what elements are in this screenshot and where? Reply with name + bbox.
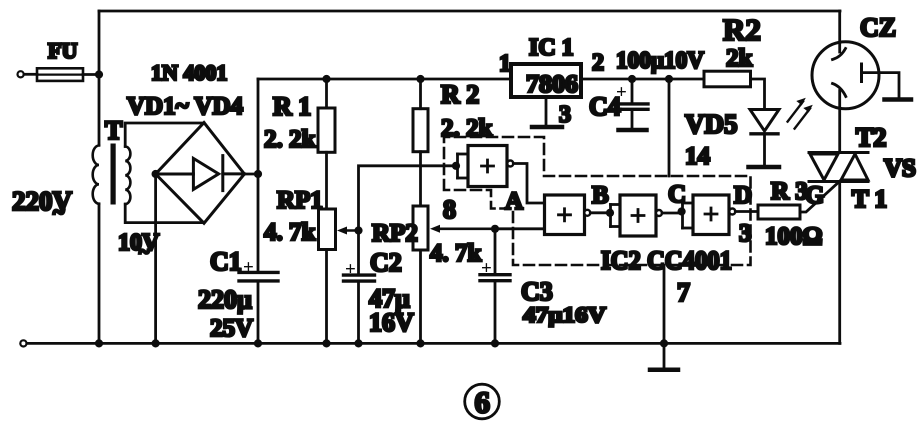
dashed IC2 boundary xyxy=(444,137,751,265)
svg-text:~: ~ xyxy=(53,199,65,224)
wire pin 14 drop xyxy=(668,79,671,176)
wire C2 to bus xyxy=(357,281,360,343)
wire positive top rail xyxy=(258,78,511,81)
svg-text:2k: 2k xyxy=(726,45,753,72)
voltage regulator IC1 7806 xyxy=(499,35,604,128)
bridge rectifier VD1-VD4 xyxy=(156,123,245,224)
node gate3 input xyxy=(606,209,614,217)
svg-text:47μ16V: 47μ16V xyxy=(523,302,606,327)
node R2 top xyxy=(416,75,424,83)
node bus junction bridge xyxy=(152,339,160,347)
svg-text:FU: FU xyxy=(48,38,77,63)
node bridge left corner xyxy=(152,170,160,178)
svg-text:~: ~ xyxy=(139,241,150,263)
wire bottom bus neutral xyxy=(27,342,840,345)
wire wiper node to gate1 input xyxy=(359,166,457,231)
svg-text:+: + xyxy=(243,257,254,278)
svg-text:T2: T2 xyxy=(856,123,886,152)
fuse FU xyxy=(37,38,83,81)
wire bridge negative to bus xyxy=(154,174,157,343)
svg-text:7806: 7806 xyxy=(526,71,578,98)
node RP2 wiper junction A xyxy=(491,225,499,233)
ground CZ earth pin xyxy=(885,97,912,102)
node top terminal xyxy=(18,71,24,77)
svg-text:100μ10V: 100μ10V xyxy=(616,48,705,74)
node bottom terminal xyxy=(20,340,26,346)
svg-text:IC2 CC4001: IC2 CC4001 xyxy=(601,246,732,275)
potentiometer RP2 xyxy=(372,206,495,267)
node bus junction C1 xyxy=(254,339,262,347)
svg-text:R 1: R 1 xyxy=(273,92,311,121)
wire C4 to ground xyxy=(631,110,634,129)
resistor R3 xyxy=(758,178,823,250)
LED VD5 xyxy=(685,109,779,165)
wire gate3 to gate4 xyxy=(662,212,682,215)
wire triac T1 to bus xyxy=(838,182,841,344)
node fuse junction xyxy=(95,70,103,78)
wire top rail live xyxy=(99,10,840,13)
wire C1 to bus xyxy=(257,281,260,343)
svg-text:CZ: CZ xyxy=(860,13,896,42)
svg-text:2: 2 xyxy=(592,50,604,76)
capacitor C4 xyxy=(589,79,648,121)
label 220V xyxy=(12,186,73,224)
wire secondary top to bridge xyxy=(125,123,204,147)
wire R3 to gate G diagonal xyxy=(800,180,841,212)
svg-text:+: + xyxy=(345,259,356,280)
gate U2D xyxy=(683,195,736,235)
capacitor C1 xyxy=(198,247,278,342)
LED emission arrows xyxy=(788,98,813,129)
node bus junction C2 xyxy=(354,339,362,347)
resistor R2 xyxy=(413,79,493,152)
wire fuse to junction xyxy=(83,73,99,76)
svg-text:+: + xyxy=(481,258,492,279)
svg-text:14: 14 xyxy=(685,143,711,170)
node C4 junction xyxy=(628,75,636,83)
svg-text:3: 3 xyxy=(739,220,752,247)
ground C4 xyxy=(619,128,647,133)
svg-text:16V: 16V xyxy=(369,308,414,337)
svg-text:VD1~ VD4: VD1~ VD4 xyxy=(127,93,244,120)
svg-text:3: 3 xyxy=(559,102,571,128)
gate U2B xyxy=(545,195,591,235)
wire terminal to fuse xyxy=(24,73,37,76)
svg-text:IC 1: IC 1 xyxy=(529,35,574,61)
node R1 top xyxy=(322,75,330,83)
svg-text:6: 6 xyxy=(475,385,491,420)
resistor R2k top-right xyxy=(704,12,761,87)
resistor R1 xyxy=(264,79,335,153)
wire bridge positive to C1 line xyxy=(244,173,258,176)
node bus junction C3 xyxy=(491,339,499,347)
svg-text:R 3: R 3 xyxy=(771,178,808,205)
node bus junction RP2 xyxy=(416,339,424,347)
svg-text:7: 7 xyxy=(677,278,690,307)
svg-text:C4: C4 xyxy=(589,92,621,121)
wire RP2 to bus xyxy=(419,250,422,343)
capacitor C3 xyxy=(480,229,606,327)
node RP1 wiper junction xyxy=(354,226,362,234)
potentiometer RP1 xyxy=(264,187,359,250)
ground IC2 pin7 xyxy=(650,368,678,373)
svg-text:C1: C1 xyxy=(210,247,242,276)
wire R2 to RP2 xyxy=(419,152,422,206)
wire left vertical live/primary feed xyxy=(98,11,101,145)
svg-text:1: 1 xyxy=(499,51,511,77)
wire RP1 to bus xyxy=(325,250,328,344)
node gate1 input xyxy=(452,162,460,170)
svg-text:4. 7k: 4. 7k xyxy=(430,240,482,267)
svg-text:2. 2k: 2. 2k xyxy=(264,126,316,153)
transformer T xyxy=(93,116,131,205)
ground VD5 xyxy=(749,165,780,170)
svg-text:T: T xyxy=(105,116,122,145)
wire gate1 output to gate2 upper input xyxy=(513,164,544,204)
wire R1 to RP1 xyxy=(325,152,328,209)
triac VS xyxy=(809,123,916,213)
svg-text:A: A xyxy=(505,188,523,215)
svg-text:R 2: R 2 xyxy=(441,80,479,109)
svg-text:25V: 25V xyxy=(210,315,253,342)
wire CZ bottom to triac T2 xyxy=(838,91,841,153)
svg-text:D: D xyxy=(734,182,752,209)
node pin7 bus xyxy=(660,339,668,347)
wire IC1 output rail xyxy=(581,78,704,81)
svg-text:1N 4001: 1N 4001 xyxy=(151,60,227,85)
node bus junction primary xyxy=(95,339,103,347)
label 10V xyxy=(118,230,160,263)
wire C1 column upper xyxy=(257,79,260,272)
svg-text:G: G xyxy=(805,182,824,209)
figure number 6 xyxy=(465,384,500,419)
gate U2C xyxy=(611,195,663,236)
wire gate4 output to R3 xyxy=(735,210,758,213)
node gate4 input xyxy=(678,207,686,215)
wire IC2 pin7 xyxy=(663,265,666,368)
wire C3 to bus xyxy=(494,281,497,343)
svg-text:VD5: VD5 xyxy=(685,109,738,139)
node positive rail junction xyxy=(254,170,262,178)
svg-text:4. 7k: 4. 7k xyxy=(264,219,316,246)
svg-text:B: B xyxy=(592,182,609,209)
ground IC1 pin3 xyxy=(532,125,562,130)
svg-text:R2: R2 xyxy=(723,12,761,47)
svg-text:100Ω: 100Ω xyxy=(765,223,823,250)
gate U2A xyxy=(458,146,514,187)
capacitor C2 xyxy=(344,231,415,338)
svg-text:220μ: 220μ xyxy=(198,285,252,314)
wire R2k to VD5 xyxy=(751,79,765,109)
node pin14 junction xyxy=(665,75,673,83)
svg-text:RP1: RP1 xyxy=(277,187,323,214)
wire IC1 pin3 to ground xyxy=(545,97,548,125)
wire gate2 to gate3 xyxy=(590,211,610,214)
svg-text:VS: VS xyxy=(884,155,916,182)
svg-text:8: 8 xyxy=(443,195,456,224)
wire junction to gate2 lower input xyxy=(495,227,545,230)
svg-text:T 1: T 1 xyxy=(852,186,887,213)
node bus junction RP1 xyxy=(322,339,330,347)
socket CZ xyxy=(812,11,899,109)
svg-text:RP2: RP2 xyxy=(372,220,418,247)
svg-text:C2: C2 xyxy=(370,248,402,277)
wire secondary bottom to bridge xyxy=(125,204,204,223)
